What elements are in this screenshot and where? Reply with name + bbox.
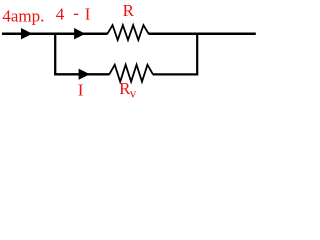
wire: top main wire, left segment: [2, 33, 108, 36]
wire: top main wire, right segment: [148, 33, 255, 36]
svg-text:Rv: Rv: [119, 79, 137, 100]
wire: bottom branch horizontal right segment and right vertical riser: [153, 34, 198, 75]
arrowhead: source current 4 amp direction: [21, 28, 32, 39]
wire: left branch vertical drop: [54, 34, 56, 75]
wire: bottom branch horizontal, left segment: [54, 73, 109, 75]
arrowhead: branch current 4-I direction: [74, 28, 85, 39]
resistor Rv: [109, 65, 153, 82]
svg-text:I: I: [78, 81, 84, 100]
resistor R: [107, 25, 148, 40]
svg-text:R: R: [123, 1, 135, 20]
svg-text:4amp.: 4amp.: [2, 6, 44, 25]
svg-text:4-I: 4-I: [56, 4, 91, 24]
arrowhead: branch current I direction: [79, 69, 90, 80]
